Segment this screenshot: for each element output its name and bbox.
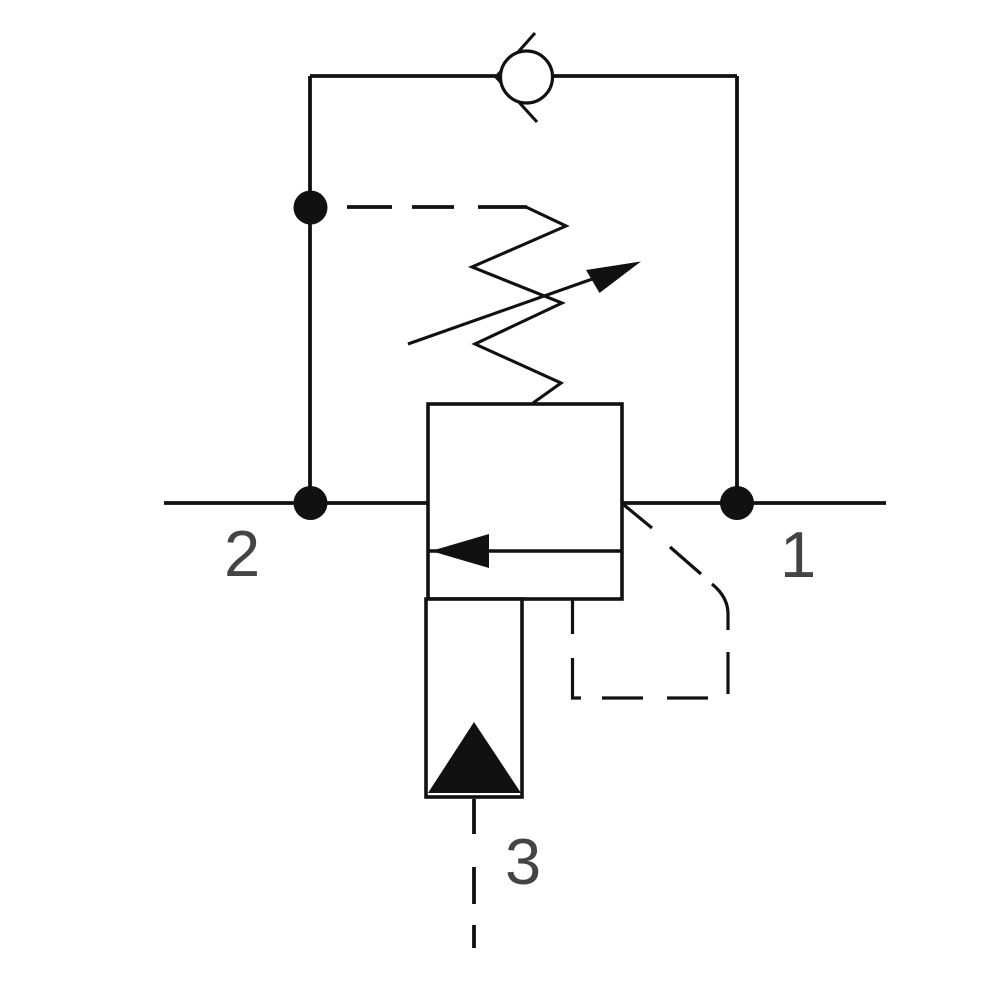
wire: main horizontal line from port 2 to valve body <box>164 501 428 505</box>
wire: dashed drain line to port 3 <box>472 799 476 948</box>
arrow: adjustment arrowhead <box>586 262 641 294</box>
node A: junction dot on left riser <box>294 191 328 225</box>
wire: flow line inside valve body <box>428 549 622 553</box>
wire: right vertical riser from node 1 to top line <box>735 76 739 503</box>
svg-text:3: 3 <box>505 825 541 898</box>
wire: main horizontal line from valve body to port 1 <box>622 501 886 505</box>
arrow: adjustment arrow shaft through spring <box>408 277 598 344</box>
node 1: junction dot <box>720 486 754 520</box>
wire: dashed pilot path from port 1 side to stem bottom <box>573 505 729 698</box>
check valve CV1: seat V <box>496 33 537 122</box>
check valve CV1: ball circle <box>501 51 553 103</box>
wire: dashed pilot line from node A to spring top <box>347 205 527 209</box>
node 2: junction dot <box>294 486 328 520</box>
wire: top horizontal line left of check valve <box>310 74 499 78</box>
arrow: flow arrowhead pointing left inside valve body <box>431 534 489 568</box>
wire: top horizontal line right of check valve <box>553 74 737 78</box>
svg-text:1: 1 <box>780 518 816 591</box>
wire: left vertical riser from node 2 to top line <box>308 76 312 503</box>
pilot element: filled triangle pointing up <box>428 722 521 793</box>
valve stem: lower body box <box>426 599 522 797</box>
svg-text:2: 2 <box>224 517 260 590</box>
valve U1: main valve body box <box>428 404 622 599</box>
spring: adjustable spring zigzag <box>472 207 566 403</box>
